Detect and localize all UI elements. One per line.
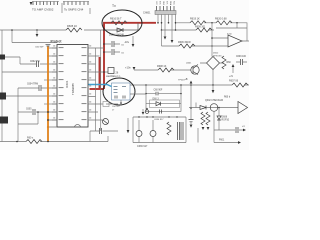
svg-text:Protect: Protect — [51, 39, 63, 43]
svg-text:R60: R60 — [227, 62, 232, 64]
svg-text:C636 917: C636 917 — [137, 145, 148, 148]
svg-text:C605: C605 — [26, 109, 32, 111]
svg-text:C634 917: C634 917 — [154, 119, 164, 121]
svg-text:SDA: SDA — [169, 1, 172, 6]
svg-text:R620 0.68: R620 0.68 — [215, 18, 227, 21]
svg-text:+10v: +10v — [125, 66, 131, 70]
svg-text:9Vs: 9Vs — [166, 1, 168, 4]
svg-text:Q602 CHECK&W: Q602 CHECK&W — [205, 100, 224, 102]
svg-text:D602: D602 — [213, 53, 219, 55]
svg-text:TDA9885: TDA9885 — [71, 83, 75, 95]
svg-text:SFXXXX: SFXXXX — [213, 56, 222, 58]
svg-text:C60 907: C60 907 — [112, 106, 120, 108]
svg-text:To SMPS CN4: To SMPS CN4 — [64, 8, 84, 12]
svg-text:R608 1K: R608 1K — [157, 65, 167, 68]
svg-text:C60 90P: C60 90P — [35, 46, 44, 48]
svg-text:+B: +B — [185, 78, 188, 81]
svg-text:F601: F601 — [219, 140, 225, 142]
svg-text:+xV: +xV — [229, 76, 233, 78]
svg-text:Tv: Tv — [112, 4, 116, 8]
svg-text:C604 TRM: C604 TRM — [27, 84, 38, 86]
svg-text:Q601: Q601 — [186, 63, 192, 65]
svg-text:R605 1K: R605 1K — [67, 24, 77, 28]
svg-text:R607 06: R607 06 — [229, 80, 239, 83]
svg-text:R609 301: R609 301 — [195, 26, 206, 29]
svg-text:C60 90F: C60 90F — [154, 90, 163, 92]
svg-text:RGP10: RGP10 — [222, 120, 230, 122]
svg-text:R606 301W: R606 301W — [178, 41, 191, 44]
svg-text:CN601: CN601 — [143, 12, 151, 15]
svg-text:R60 b: R60 b — [224, 97, 231, 99]
svg-text:IC60: IC60 — [227, 34, 232, 36]
svg-text:D601 1N4148: D601 1N4148 — [109, 34, 124, 37]
svg-text:IC601: IC601 — [65, 80, 69, 88]
svg-text:-10v: -10v — [124, 40, 130, 44]
svg-text:R616 56 T: R616 56 T — [110, 18, 122, 21]
svg-text:R60 x: R60 x — [27, 137, 34, 140]
svg-text:R619 1K: R619 1K — [190, 18, 200, 21]
svg-text:D60.3: D60.3 — [153, 98, 160, 100]
svg-text:D608: D608 — [222, 117, 228, 119]
svg-text:oscillator n: oscillator n — [106, 74, 121, 78]
svg-text:TP604: TP604 — [178, 80, 185, 82]
svg-text:C602 TW: C602 TW — [30, 61, 40, 63]
svg-text:TO AMP CN302: TO AMP CN302 — [32, 8, 54, 12]
svg-text:C609 100: C609 100 — [236, 56, 247, 58]
